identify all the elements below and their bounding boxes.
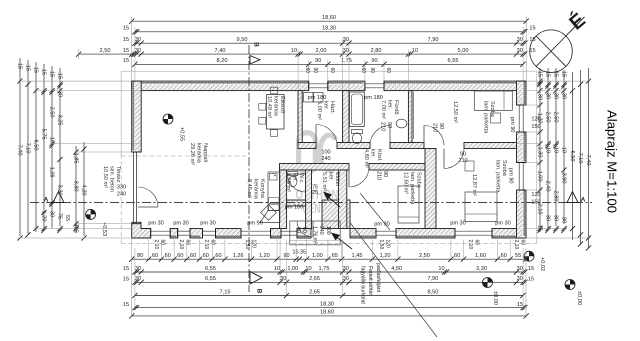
svg-text:1,75: 1,75 xyxy=(319,266,330,272)
bottom wall segment under szoba 12,60 xyxy=(396,229,455,239)
svg-text:5,75: 5,75 xyxy=(40,129,46,140)
partition furdo/szoba xyxy=(408,91,412,143)
svg-text:18,60: 18,60 xyxy=(322,15,336,21)
svg-text:30: 30 xyxy=(48,211,54,217)
left wall xyxy=(132,81,142,152)
window right wall 120 (szoba 12,87) xyxy=(518,163,520,191)
dim row 30/7,40/10/2,00/30/2,80/10/5,00/30 xyxy=(79,53,523,55)
roof line over terrace (dashed) xyxy=(121,155,249,157)
svg-text:7,00 m²: 7,00 m² xyxy=(380,100,386,119)
svg-text:Konyha: Konyha xyxy=(259,179,265,199)
svg-text:240: 240 xyxy=(321,156,330,162)
chair left upper xyxy=(259,104,266,111)
svg-text:3,20: 3,20 xyxy=(56,185,62,196)
bottom wall segment right-of-entrance xyxy=(350,229,376,239)
svg-text:2,10: 2,10 xyxy=(203,240,209,250)
svg-text:30: 30 xyxy=(544,215,550,221)
roof eaves left line xyxy=(120,71,122,154)
lower rooms top wall segment 2 xyxy=(369,164,425,171)
room label eloter xyxy=(321,172,340,191)
svg-text:±0,00: ±0,00 xyxy=(576,291,582,305)
svg-text:Étkező: Étkező xyxy=(279,96,286,113)
svg-text:15: 15 xyxy=(544,71,550,77)
svg-text:1,26: 1,26 xyxy=(233,253,244,259)
svg-text:+0,55: +0,55 xyxy=(179,127,185,141)
svg-text:15: 15 xyxy=(528,277,534,283)
svg-text:15: 15 xyxy=(123,277,129,283)
svg-text:80: 80 xyxy=(137,253,143,259)
entrance porch outline xyxy=(290,221,340,245)
svg-text:10: 10 xyxy=(48,137,54,143)
kitchen counter xyxy=(268,172,280,211)
svg-text:30: 30 xyxy=(135,37,141,43)
window right wall 120 (szoba 12,50) xyxy=(518,105,520,132)
wc bottom wall xyxy=(287,200,306,206)
svg-text:Szoba: Szoba xyxy=(501,160,507,177)
svg-text:3,90: 3,90 xyxy=(560,173,566,184)
section marker B bottom xyxy=(250,272,262,285)
svg-text:15: 15 xyxy=(123,48,129,54)
svg-text:±0,00: ±0,00 xyxy=(492,291,498,305)
room label furdo xyxy=(380,100,399,119)
wall szoba 12,60/12,87 xyxy=(425,149,436,229)
left dim col 5,75/1,20 xyxy=(43,64,45,230)
right dim col 1 xyxy=(539,68,541,232)
top guide verticals xyxy=(131,17,133,82)
left dim col 3,30 xyxy=(75,146,77,232)
svg-text:1,20: 1,20 xyxy=(40,211,46,222)
svg-text:15: 15 xyxy=(123,26,129,32)
svg-text:18,30: 18,30 xyxy=(320,301,334,307)
svg-text:10: 10 xyxy=(560,147,566,153)
bottom wall pier 1 xyxy=(170,229,178,239)
svg-text:30: 30 xyxy=(343,276,349,282)
svg-text:15: 15 xyxy=(528,266,534,272)
room label szoba 12,87 xyxy=(495,160,507,193)
svg-text:2,50: 2,50 xyxy=(419,253,430,259)
svg-text:3,25: 3,25 xyxy=(56,115,62,126)
svg-text:55: 55 xyxy=(515,253,521,259)
toilet wc xyxy=(288,172,298,176)
svg-text:12,50 m²: 12,50 m² xyxy=(452,101,458,123)
wall konyha/wc xyxy=(280,170,287,229)
watermark logo OC xyxy=(299,133,336,173)
north compass xyxy=(530,16,586,73)
door szoba 12,50 xyxy=(423,126,425,146)
section line B (vertical dash-dot) xyxy=(248,45,250,292)
svg-text:sim. beton: sim. beton xyxy=(109,166,115,192)
left dim col 6,50 xyxy=(35,62,37,232)
svg-text:ker.: ker. xyxy=(387,100,393,109)
svg-text:8,20: 8,20 xyxy=(217,58,228,64)
nightstand szoba 12,50 xyxy=(491,113,501,123)
window bottom kitchen 1,26 xyxy=(241,230,271,232)
svg-text:12,87 m²: 12,87 m² xyxy=(471,174,477,196)
window top wall 90 (furdo) xyxy=(365,83,384,85)
svg-text:pm 30: pm 30 xyxy=(173,220,189,226)
svg-text:2,65: 2,65 xyxy=(309,276,320,282)
svg-text:2,50: 2,50 xyxy=(48,107,54,118)
svg-text:60: 60 xyxy=(329,68,335,74)
svg-text:7,90: 7,90 xyxy=(428,37,439,43)
right dim col 7,40 xyxy=(588,68,590,248)
dim row 18,30 (top) xyxy=(135,31,523,33)
svg-text:6,50: 6,50 xyxy=(569,151,575,162)
svg-text:10: 10 xyxy=(438,266,444,272)
roof eaves top line xyxy=(121,70,537,72)
wall hazt/furdo xyxy=(343,91,349,143)
dim row 18,60 (top total) xyxy=(132,20,527,22)
svg-text:60: 60 xyxy=(177,253,183,259)
terrace door leaf xyxy=(138,206,158,208)
svg-text:Házt.: Házt. xyxy=(329,101,335,115)
svg-text:4,80 m²: 4,80 m² xyxy=(363,149,369,168)
bottom wall pier 5 xyxy=(297,229,311,239)
bottom wall corner right xyxy=(492,229,526,239)
svg-text:2,10: 2,10 xyxy=(178,240,184,250)
dim row C bottom xyxy=(135,281,523,283)
svg-text:5,51 m²: 5,51 m² xyxy=(321,172,327,191)
svg-text:10: 10 xyxy=(305,266,311,272)
window bottom pm30 no2 xyxy=(178,230,191,232)
bed szoba 12,50 xyxy=(474,91,512,110)
section marker B top xyxy=(250,56,260,65)
svg-text:30: 30 xyxy=(343,48,349,54)
svg-text:1,00: 1,00 xyxy=(312,253,323,259)
svg-text:pm 30: pm 30 xyxy=(148,220,164,226)
level marker +0,53 (terasz) xyxy=(86,209,96,219)
washer hazt xyxy=(304,93,314,103)
window top wall 90 (hazt) xyxy=(309,83,328,85)
svg-text:2,65: 2,65 xyxy=(309,289,320,295)
svg-text:lam. parketta: lam. parketta xyxy=(495,160,501,193)
svg-text:30: 30 xyxy=(517,48,523,54)
svg-text:120: 120 xyxy=(385,240,391,249)
svg-text:4,50: 4,50 xyxy=(391,266,402,272)
corridor wall segment 4 xyxy=(464,143,517,149)
svg-text:2,10: 2,10 xyxy=(153,240,159,250)
svg-text:15: 15 xyxy=(16,63,22,69)
svg-text:10: 10 xyxy=(552,147,558,153)
top wall segment right xyxy=(384,81,526,91)
svg-text:+0,02: +0,02 xyxy=(539,257,545,271)
svg-text:90: 90 xyxy=(315,58,321,64)
svg-text:pm 30: pm 30 xyxy=(450,220,466,226)
svg-text:B: B xyxy=(256,289,263,294)
svg-text:35: 35 xyxy=(300,250,306,256)
svg-text:55: 55 xyxy=(64,215,70,221)
wall eloter/szoba 12,60 xyxy=(339,170,347,229)
svg-text:Terasz: Terasz xyxy=(115,166,121,183)
svg-text:2,10: 2,10 xyxy=(513,240,519,250)
window bottom 1,60 (szoba 12,87) xyxy=(455,230,492,232)
right dim col 7,10 xyxy=(580,70,582,244)
room label kozl xyxy=(363,149,382,168)
svg-text:15: 15 xyxy=(529,37,535,43)
top wall segment left xyxy=(132,81,309,91)
svg-text:150: 150 xyxy=(531,124,540,130)
svg-text:kerámia: kerámia xyxy=(273,96,279,117)
svg-text:7,40: 7,40 xyxy=(215,48,226,54)
svg-text:30: 30 xyxy=(517,276,523,282)
svg-text:2,80: 2,80 xyxy=(371,48,382,54)
svg-text:30: 30 xyxy=(280,276,286,282)
terrace door glazing xyxy=(133,152,135,224)
svg-text:15: 15 xyxy=(529,26,535,32)
svg-text:+0,53: +0,53 xyxy=(101,222,107,236)
level marker +/-0,00 row C xyxy=(483,278,493,288)
window bottom pm30 no3 xyxy=(203,230,216,232)
kitchen corner counter (diagonal) xyxy=(260,211,280,223)
svg-text:210: 210 xyxy=(458,158,467,164)
svg-text:pm 90: pm 90 xyxy=(374,222,390,228)
svg-text:7,90: 7,90 xyxy=(427,276,438,282)
entry arrow 2 xyxy=(334,235,352,249)
svg-text:10: 10 xyxy=(291,48,297,54)
section line A (horizontal dash-dot) xyxy=(30,202,592,204)
svg-text:1,50: 1,50 xyxy=(244,240,250,250)
row4 double slashes xyxy=(131,52,136,57)
svg-text:Nappali: Nappali xyxy=(202,143,208,162)
level marker +0,02 (porch) xyxy=(524,251,534,261)
svg-text:6,55: 6,55 xyxy=(205,276,216,282)
dim row F bottom 18,60 xyxy=(132,315,527,317)
roof eaves bottom line (dashed) xyxy=(121,243,537,245)
svg-text:60: 60 xyxy=(185,240,191,246)
svg-text:15: 15 xyxy=(536,71,542,77)
room label etkezo xyxy=(266,96,286,118)
svg-text:120: 120 xyxy=(531,192,540,198)
svg-text:60: 60 xyxy=(474,240,480,246)
entrance porch inner line xyxy=(290,240,340,242)
svg-text:1,20: 1,20 xyxy=(536,113,542,124)
svg-text:2,50: 2,50 xyxy=(100,48,111,54)
svg-text:pm 90: pm 90 xyxy=(508,168,514,184)
svg-text:25: 25 xyxy=(312,190,318,196)
svg-text:60: 60 xyxy=(454,253,460,259)
svg-text:6,50: 6,50 xyxy=(32,140,38,151)
svg-text:pm 180: pm 180 xyxy=(308,95,327,101)
window bottom pm30 no1 xyxy=(151,230,171,232)
svg-text:60: 60 xyxy=(203,253,209,259)
svg-text:30: 30 xyxy=(536,94,542,100)
right dim col 4 xyxy=(563,70,565,224)
nightstand szoba 12,87 xyxy=(465,161,474,171)
svg-text:75: 75 xyxy=(56,213,62,219)
svg-text:1,20: 1,20 xyxy=(259,253,270,259)
svg-text:15: 15 xyxy=(123,37,129,43)
svg-text:30: 30 xyxy=(560,217,566,223)
svg-text:padlásfeljáró: padlásfeljáró xyxy=(375,263,381,293)
section marker A left xyxy=(53,192,64,203)
left dim col 4,20 xyxy=(83,142,85,236)
svg-text:15: 15 xyxy=(40,69,46,75)
room label konyha xyxy=(246,179,265,200)
corner pillar bottom-left xyxy=(132,222,151,238)
svg-text:90: 90 xyxy=(371,58,377,64)
svg-text:Előtér: Előtér xyxy=(334,172,340,187)
level marker +0,55 (nappali) xyxy=(163,114,173,124)
dim row 8,20/90/1,75/90/6,55 xyxy=(135,63,523,65)
svg-text:5,00: 5,00 xyxy=(458,48,469,54)
svg-text:18,30: 18,30 xyxy=(322,26,336,32)
door wc xyxy=(288,173,306,175)
toilet furdo xyxy=(352,130,363,134)
svg-text:lam. parketta: lam. parketta xyxy=(409,172,415,205)
corridor wall segment 1 xyxy=(298,143,316,149)
bottom wall pier 2 xyxy=(190,229,203,239)
svg-text:15: 15 xyxy=(48,71,54,77)
svg-text:15: 15 xyxy=(56,73,62,79)
dim row B bottom xyxy=(135,271,523,273)
leader line padlasfeljaro xyxy=(350,223,437,338)
svg-text:60: 60 xyxy=(215,253,221,259)
washbasin furdo xyxy=(396,119,407,128)
bathtub xyxy=(350,92,365,127)
svg-text:1,60: 1,60 xyxy=(475,253,486,259)
svg-text:1,85: 1,85 xyxy=(72,153,78,164)
room label hazt xyxy=(316,101,335,120)
svg-text:1,50: 1,50 xyxy=(378,240,384,250)
svg-text:2,10: 2,10 xyxy=(467,240,473,250)
svg-text:W.c.: W.c. xyxy=(298,173,304,184)
svg-text:pm 30: pm 30 xyxy=(200,220,216,226)
dim row A (fine bottom) xyxy=(132,258,526,260)
svg-text:30: 30 xyxy=(135,266,141,272)
room label szoba 12,60 xyxy=(403,172,422,205)
svg-text:30: 30 xyxy=(517,37,523,43)
svg-text:A: A xyxy=(581,197,586,204)
svg-text:30: 30 xyxy=(56,91,62,97)
svg-text:pm 90: pm 90 xyxy=(247,220,263,226)
svg-text:7,40: 7,40 xyxy=(585,155,591,166)
svg-text:100: 100 xyxy=(321,150,330,156)
partition etkezo/hazt xyxy=(298,91,302,143)
svg-text:pm 30: pm 30 xyxy=(495,220,511,226)
svg-text:1,26: 1,26 xyxy=(48,167,54,178)
svg-text:1,20: 1,20 xyxy=(380,253,391,259)
svg-text:15: 15 xyxy=(123,266,129,272)
svg-text:Fürdő: Fürdő xyxy=(393,100,399,115)
bed szoba 12,87 xyxy=(465,192,497,222)
right wall bottom segment xyxy=(517,190,527,238)
level marker +/-0,00 right xyxy=(565,280,575,290)
svg-text:60: 60 xyxy=(301,227,307,233)
bottom wall pier 4 xyxy=(271,229,282,239)
right dim col 2 xyxy=(547,68,549,228)
watermark text OTTHON CENTRUM xyxy=(296,188,346,217)
svg-text:60: 60 xyxy=(385,68,391,74)
svg-text:2,50: 2,50 xyxy=(552,112,558,123)
svg-text:100: 100 xyxy=(325,226,331,235)
right dim col 3 xyxy=(555,68,557,226)
svg-text:pm 180: pm 180 xyxy=(285,205,304,211)
svg-text:7,15: 7,15 xyxy=(220,289,231,295)
svg-text:30: 30 xyxy=(552,215,558,221)
svg-text:1,76 m²: 1,76 m² xyxy=(312,226,318,244)
svg-text:6,55: 6,55 xyxy=(205,266,216,272)
bottom wall pier 3 xyxy=(216,229,242,239)
svg-text:15: 15 xyxy=(123,302,129,308)
svg-text:A: A xyxy=(44,197,49,204)
left guide horizontals xyxy=(18,80,132,82)
svg-text:10,50 m²: 10,50 m² xyxy=(102,166,108,188)
svg-text:2,00: 2,00 xyxy=(316,48,327,54)
svg-text:30: 30 xyxy=(343,266,349,272)
svg-text:10: 10 xyxy=(412,48,418,54)
svg-text:10: 10 xyxy=(544,147,550,153)
door szoba 12,87 xyxy=(443,149,445,169)
svg-text:29,26 m²: 29,26 m² xyxy=(189,143,195,165)
svg-text:2,40: 2,40 xyxy=(544,181,550,192)
dim row E bottom 18,30 xyxy=(135,307,523,309)
section marker A right xyxy=(567,192,578,203)
dim row D bottom xyxy=(135,295,523,297)
svg-text:7,10: 7,10 xyxy=(24,143,30,154)
svg-text:30: 30 xyxy=(560,93,566,99)
svg-text:60: 60 xyxy=(160,240,166,246)
door szoba 12,60 xyxy=(348,167,350,187)
svg-text:90: 90 xyxy=(438,123,444,129)
roof eaves right line xyxy=(536,71,538,243)
svg-text:60: 60 xyxy=(210,240,216,246)
svg-text:18,60: 18,60 xyxy=(320,310,334,316)
svg-text:10: 10 xyxy=(274,266,280,272)
svg-text:60: 60 xyxy=(190,253,196,259)
corridor wall segment 3 xyxy=(390,143,424,149)
window bottom pm90 (szoba 12,60) xyxy=(376,230,396,232)
svg-text:lam. parketta: lam. parketta xyxy=(483,101,489,134)
svg-text:15: 15 xyxy=(560,71,566,77)
svg-text:330: 330 xyxy=(117,185,126,191)
left dim col 2,50/10 xyxy=(51,66,53,228)
svg-text:30: 30 xyxy=(552,93,558,99)
right total cols end ticks xyxy=(578,241,583,246)
svg-text:ker.: ker. xyxy=(292,173,298,182)
svg-text:ker.: ker. xyxy=(370,149,376,158)
svg-text:15: 15 xyxy=(529,48,535,54)
wall wc/eloter xyxy=(306,170,312,229)
dim row 30/9,50/30/7,90/30 xyxy=(135,42,523,44)
room label wc xyxy=(285,173,304,192)
svg-text:Fedett előtér: Fedett előtér xyxy=(367,266,373,295)
entrance door xyxy=(312,221,314,237)
svg-text:15: 15 xyxy=(552,71,558,77)
svg-text:Közl.: Közl. xyxy=(376,149,382,162)
svg-text:6,55: 6,55 xyxy=(448,58,459,64)
bed szoba 12,60 xyxy=(398,186,419,223)
svg-text:3,30: 3,30 xyxy=(72,181,78,192)
chair bottom xyxy=(271,130,278,137)
room label nappali xyxy=(189,143,208,165)
entrance niche wall chunk xyxy=(322,200,350,229)
svg-text:15: 15 xyxy=(24,65,30,71)
svg-text:10,49 m²: 10,49 m² xyxy=(266,96,272,118)
svg-text:30: 30 xyxy=(544,93,550,99)
chair top xyxy=(271,87,278,94)
lower rooms top wall segment 1 xyxy=(280,164,350,171)
guide for 2,50 extension xyxy=(78,49,80,59)
svg-text:90: 90 xyxy=(386,122,392,128)
bottom guide verticals xyxy=(148,240,150,260)
right guide horizontals xyxy=(526,80,590,82)
corridor wall segment 2 xyxy=(337,143,370,149)
svg-text:90: 90 xyxy=(460,152,466,158)
svg-text:240: 240 xyxy=(117,192,126,198)
svg-text:ker.: ker. xyxy=(323,101,329,110)
door furdo xyxy=(389,126,391,146)
terrace edge dashed xyxy=(120,154,122,244)
